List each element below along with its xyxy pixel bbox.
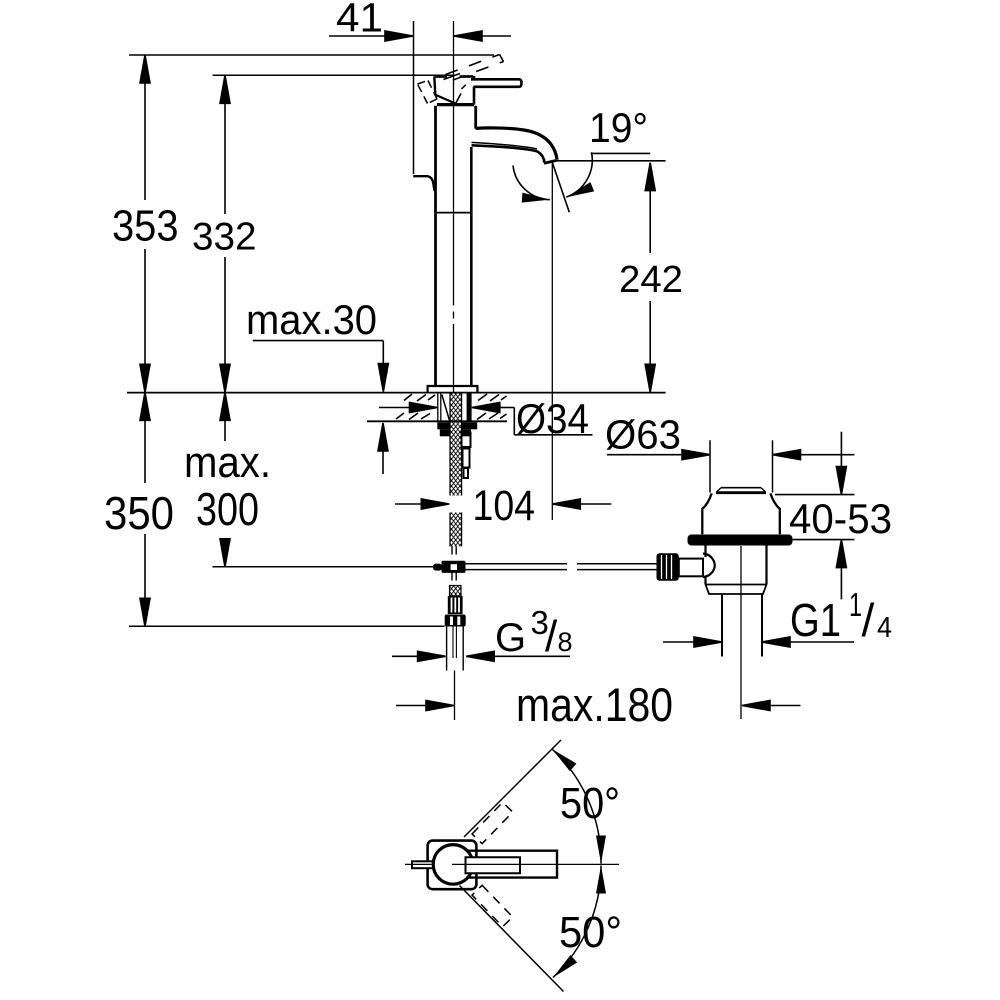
G3/8 threaded pipe below nut [447, 627, 464, 721]
handle dashed open position [446, 55, 504, 82]
svg-text:1: 1 [849, 586, 862, 623]
plan view 50deg lower dashed lever [472, 885, 513, 926]
dimension diameter34 [379, 403, 593, 435]
svg-text:41: 41 [336, 0, 383, 41]
dimension diameter63 [607, 450, 854, 460]
svg-text:max.: max. [184, 438, 271, 487]
plan view centerline [405, 863, 619, 865]
drain stopper [716, 488, 766, 493]
svg-text:8: 8 [558, 627, 573, 657]
svg-text:G1: G1 [790, 594, 841, 646]
plan view square body [428, 841, 477, 890]
dimension 242 vertical [645, 163, 655, 393]
svg-text:4: 4 [877, 612, 892, 644]
drain knurled knob [657, 553, 679, 580]
svg-text:332: 332 [192, 216, 257, 259]
dimension 40-53 [775, 432, 854, 600]
label G1 1/4 [790, 586, 892, 646]
svg-text:max.30: max.30 [246, 296, 377, 343]
wire: dimension 332 vertical [220, 75, 230, 392]
svg-text:50°: 50° [560, 779, 620, 828]
wire: dimension 353 vertical [140, 55, 150, 392]
svg-text:/: / [545, 612, 558, 661]
wire: dimension 350 vertical [140, 392, 150, 626]
dimension G3/8 [392, 651, 570, 661]
deck counter bottom line [367, 420, 507, 422]
drain extension lines for diameter63 [710, 440, 773, 492]
plan view lever inner [466, 857, 521, 873]
escutcheon base [428, 386, 478, 392]
dimension G1 1/4 [663, 637, 854, 647]
wire: dimension max.300 vertical [220, 392, 230, 567]
threaded shank and hose crosshatch [450, 393, 462, 546]
mounting hole right black bar [467, 393, 472, 421]
svg-text:353: 353 [112, 202, 179, 251]
drain body [703, 546, 767, 595]
drain tailpipe [722, 546, 762, 719]
dimension 19 degree annotation [513, 152, 666, 212]
mounting washers and nut [437, 422, 477, 436]
plan view 50deg lower diagonal [460, 886, 564, 992]
svg-text:G: G [495, 616, 526, 660]
svg-text:104: 104 [473, 482, 536, 530]
dimension 104 [395, 499, 611, 509]
plan view lower 50deg arc [553, 866, 601, 978]
plan view left stub [412, 861, 433, 868]
deck hatch [396, 394, 507, 420]
wire: bottom extension line 350 (y=626) [129, 625, 445, 627]
pop-up rod horizontal [466, 564, 657, 570]
svg-text:Ø34: Ø34 [516, 395, 589, 442]
faucet handle cap [434, 74, 474, 105]
svg-text:50°: 50° [559, 908, 622, 957]
svg-text:300: 300 [196, 483, 259, 535]
faucet body [436, 106, 476, 386]
dimension max.180 [396, 701, 801, 711]
plan view upper 50deg arc [552, 749, 601, 864]
svg-text:/: / [862, 594, 875, 646]
svg-text:350: 350 [104, 487, 174, 539]
drain gasket flange [688, 535, 793, 546]
svg-text:19°: 19° [589, 104, 648, 151]
plan view lever outer [467, 851, 558, 878]
svg-text:max.180: max.180 [516, 678, 673, 731]
wire: dimension max.30 leader and arrows [253, 341, 388, 474]
label G3/8 [495, 604, 573, 661]
handle dashed tilted cap outline [418, 81, 467, 104]
wire: extension line 332 level [213, 74, 455, 76]
hose lower stub and coupler [452, 546, 456, 580]
svg-text:40-53: 40-53 [789, 495, 892, 542]
second hose fittings right side [462, 433, 471, 479]
faucet body left hook [413, 176, 434, 191]
svg-text:242: 242 [619, 259, 683, 301]
faucet handle lever bar [471, 79, 522, 87]
G3/8 hose end fitting [445, 586, 466, 627]
mounting hole edges below deck [438, 393, 450, 421]
wire: rod level extension line (y=566.8) [213, 566, 434, 568]
drain upper flare [702, 493, 780, 534]
plan view 50deg upper diagonal [464, 740, 561, 837]
faucet centerline [453, 21, 455, 392]
pop-up rod coupler [433, 561, 466, 573]
drain side port [679, 559, 703, 577]
wire: dimension 41 lines [329, 21, 511, 174]
plan view handle circle [433, 845, 473, 885]
deck counter top line [127, 392, 666, 394]
wire: spout outlet extension line down [551, 162, 553, 520]
plan view 50deg upper dashed lever [472, 802, 513, 843]
svg-text:Ø63: Ø63 [605, 412, 681, 458]
wire: extension line top of handle (353 level) [129, 54, 494, 56]
faucet spout [472, 128, 557, 163]
